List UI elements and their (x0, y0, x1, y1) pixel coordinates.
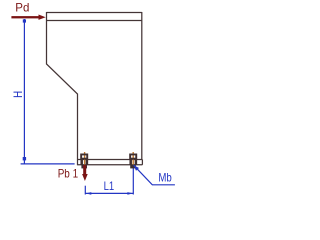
anchor bolt B2 (right) head (130, 154, 136, 164)
base plate right cap (141, 160, 143, 165)
L1 dimension line (85, 192, 133, 194)
top flange top line (47, 12, 142, 14)
right edge (141, 12, 143, 160)
svg-text:Pd: Pd (15, 1, 29, 15)
base plate top line (78, 159, 143, 161)
leader line Mb (134, 165, 175, 185)
Mb leader arrowhead (134, 165, 139, 171)
bolt B2 orange centerline (132, 152, 134, 165)
svg-text:Pb 1: Pb 1 (58, 166, 79, 180)
svg-text:Mb: Mb (158, 171, 172, 185)
bolt B2 shaft sides through plate (131, 160, 136, 165)
svg-text:L1: L1 (104, 179, 115, 193)
dimension H bottom dot (23, 157, 26, 160)
base plate bottom line (78, 164, 143, 166)
L1 right extension line (132, 166, 134, 194)
dimension H bottom extension line (21, 163, 75, 165)
dimension H vertical line (21, 19, 75, 164)
L1 right arrowhead (127, 192, 133, 195)
dimension L1 (85, 166, 133, 194)
top flange bottom line (47, 20, 142, 22)
dimension H top dot (23, 19, 26, 22)
force arrow Pb1 (vertical, dark red) (82, 165, 88, 181)
force arrow Pd (horizontal, dark red) (11, 15, 45, 20)
svg-text:H: H (11, 91, 25, 98)
bolt B1 shaft sides through plate (82, 160, 87, 165)
bolt B1 under-plate nut (81, 165, 87, 169)
bolt B2 under-plate nut (130, 165, 136, 169)
L1 left extension line (84, 186, 86, 195)
bolt B1 orange centerline (84, 152, 86, 165)
anchor bolt B1 (left) head (81, 154, 87, 164)
left edge with slope (47, 12, 78, 165)
L1 left arrowhead (86, 192, 92, 195)
wall/column outline (47, 12, 143, 165)
